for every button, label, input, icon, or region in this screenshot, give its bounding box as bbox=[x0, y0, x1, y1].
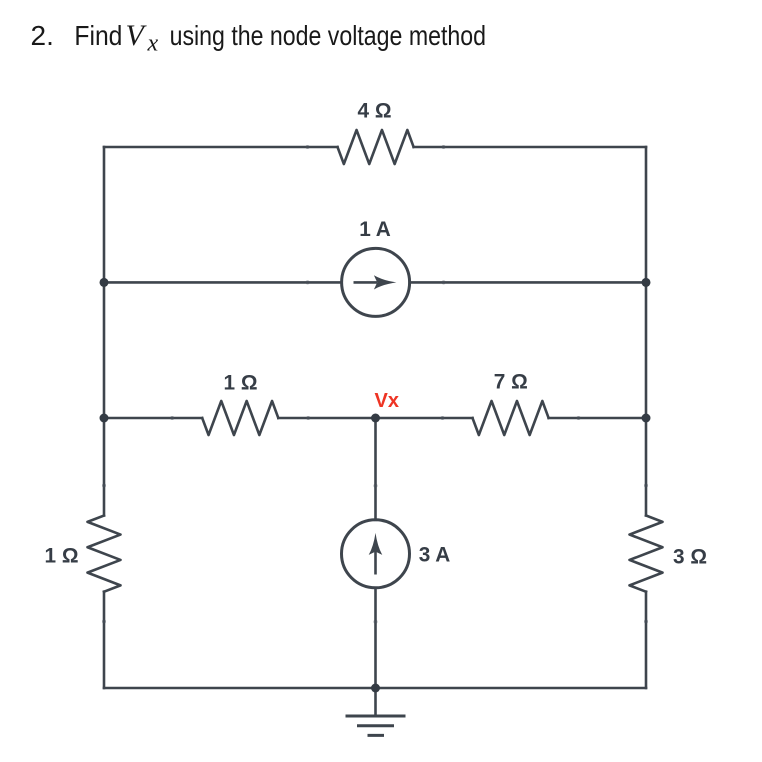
terminal mark R5 bottom bbox=[644, 620, 648, 624]
resistor R3 7ohm body bbox=[473, 401, 549, 435]
current source I2 3A circle bbox=[342, 520, 410, 588]
wire row3 1ohm to Vx bbox=[278, 417, 472, 420]
svg-text:1 A: 1 A bbox=[359, 218, 391, 241]
svg-text:x: x bbox=[147, 31, 159, 57]
svg-text:7 Ω: 7 Ω bbox=[494, 371, 528, 394]
svg-text:1 Ω: 1 Ω bbox=[44, 545, 78, 568]
ground bar 2 bbox=[359, 724, 393, 727]
resistor R4 1ohm left vertical body bbox=[88, 516, 121, 592]
ground bar 1 bbox=[347, 715, 404, 718]
ground bar 3 bbox=[369, 734, 383, 737]
terminal mark R2 left bbox=[170, 416, 174, 420]
terminal mark R4 top bbox=[102, 484, 106, 488]
wire row2 right of 1A source bbox=[410, 281, 646, 284]
resistor R5 3ohm right vertical body bbox=[630, 516, 663, 592]
arrow of 1A source bbox=[354, 275, 397, 289]
junction dot left row2 bbox=[100, 278, 109, 287]
svg-text:1 Ω: 1 Ω bbox=[223, 372, 257, 395]
wire row3 7ohm to right bbox=[549, 417, 646, 420]
wire bottom bbox=[104, 687, 646, 690]
wire right vertical upper bbox=[645, 147, 648, 516]
wire middle vertical Vx to 3A source bbox=[374, 418, 377, 520]
svg-text:V: V bbox=[126, 19, 148, 52]
terminal mark R3 left bbox=[441, 416, 445, 420]
svg-text:3 A: 3 A bbox=[419, 544, 451, 567]
wire 4ohm to top-right bbox=[414, 146, 646, 149]
svg-text:2.: 2. bbox=[31, 20, 54, 51]
junction dot right row2 bbox=[642, 278, 651, 287]
wire row2 left of 1A source bbox=[104, 281, 342, 284]
wire top-left to 4ohm bbox=[104, 146, 338, 149]
terminal mark R1 left bbox=[306, 145, 310, 149]
wire middle vertical 3A to bottom bbox=[374, 588, 377, 716]
arrow of 3A source bbox=[369, 533, 383, 575]
junction dot node Vx bbox=[371, 414, 380, 423]
terminal mark I2 top bbox=[374, 484, 378, 488]
junction dot right row3 bbox=[642, 414, 651, 423]
terminal mark I2 bottom bbox=[374, 620, 378, 624]
svg-text:4 Ω: 4 Ω bbox=[357, 100, 391, 123]
terminal mark I1 right bbox=[442, 280, 446, 284]
junction dot left row3 bbox=[100, 414, 109, 423]
svg-text:Vx: Vx bbox=[375, 390, 399, 412]
terminal mark R4 bottom bbox=[102, 620, 106, 624]
wire left vertical lower bbox=[103, 592, 106, 688]
wire left vertical upper bbox=[103, 147, 106, 516]
wire right vertical lower bbox=[645, 592, 648, 688]
terminal mark R2 right bbox=[306, 416, 310, 420]
title text bbox=[31, 19, 487, 57]
terminal mark I1 left bbox=[306, 280, 310, 284]
resistor R1 4ohm body bbox=[338, 130, 414, 164]
wire row3 left to 1ohm bbox=[104, 417, 202, 420]
current source I1 1A circle bbox=[342, 248, 410, 316]
terminal mark R5 top bbox=[644, 484, 648, 488]
terminal mark R3 right bbox=[577, 416, 581, 420]
svg-text:Find: Find bbox=[74, 20, 122, 51]
resistor R2 1ohm body bbox=[202, 401, 278, 435]
svg-text:using the node voltage method: using the node voltage method bbox=[170, 20, 486, 51]
junction dot bottom ground node bbox=[371, 684, 380, 693]
svg-text:3 Ω: 3 Ω bbox=[673, 546, 707, 569]
terminal mark R1 right bbox=[442, 145, 446, 149]
